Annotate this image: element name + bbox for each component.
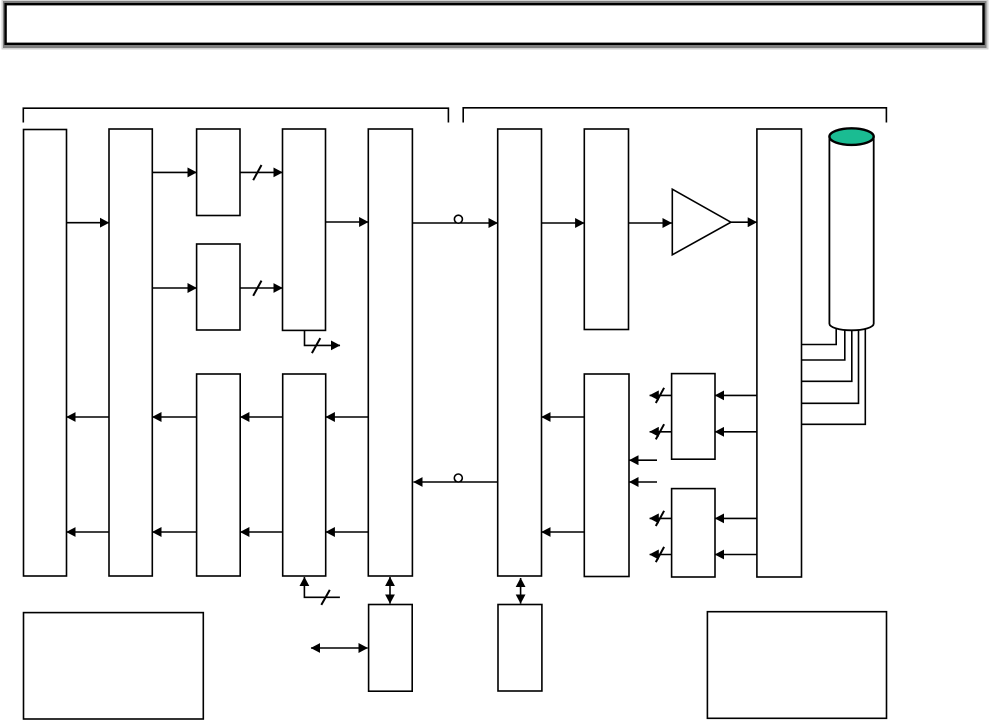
col4 lower bottom bus slash arrow <box>304 577 340 605</box>
wire cylinder line4 <box>802 330 859 403</box>
wire cylinder line3 <box>802 330 852 381</box>
wire cylinder line5 <box>802 329 866 425</box>
arrow amplifier to col8 <box>731 221 757 223</box>
arrow row1 col7 to col6 <box>542 416 585 418</box>
short arrow into col7 lower upper <box>629 459 657 461</box>
double arrow col5 to lower small box <box>389 577 391 604</box>
arrow row1 col5 to col4 <box>326 416 369 418</box>
block small below column6 <box>498 605 542 692</box>
left group bracket <box>23 108 448 122</box>
arrow row1 col4 to col3 <box>240 416 283 418</box>
block column3 small middle <box>197 244 240 330</box>
block small S1 <box>672 374 715 460</box>
block column4 upper <box>283 129 326 330</box>
S2 output bus slash arrow upper <box>650 511 672 526</box>
arrow small top to col4 with bus slash <box>240 165 283 180</box>
block column5 tall <box>368 129 412 576</box>
arrow col8 to S1 upper <box>715 394 757 396</box>
arrow row2 col2 to col1 <box>67 531 110 533</box>
cylinder (disk) body <box>829 137 873 331</box>
arrow small middle to col4 with bus slash <box>240 281 283 296</box>
node circle on return wire <box>454 474 462 482</box>
node circle on wire <box>454 215 462 223</box>
arrow col2 to small top <box>152 171 196 173</box>
arrow row2 col4 to col3 <box>240 531 283 533</box>
block column3 lower <box>197 374 241 576</box>
wire cylinder line2 <box>802 330 845 360</box>
block column8 tall <box>757 129 802 577</box>
col4 bottom bus slash arrow <box>305 331 341 353</box>
arrow row1 col3 to col2 <box>152 416 196 418</box>
cylinder (disk) top ellipse <box>829 128 873 145</box>
block column2 tall <box>109 129 152 576</box>
double arrow col6 to lower small box <box>520 578 522 604</box>
title bar frame <box>2 0 989 50</box>
block column6 tall <box>498 129 542 576</box>
block column1 tall <box>24 130 67 577</box>
block column4 lower <box>283 374 326 576</box>
wire cylinder line1 <box>802 328 837 344</box>
block small below column5 <box>369 605 413 692</box>
arrow col4 to col5 <box>326 221 369 223</box>
block bottom-left large <box>24 613 204 719</box>
block column3 small top <box>197 129 240 216</box>
arrow col8 to S2 lower <box>715 554 757 556</box>
S2 output bus slash arrow lower <box>650 547 672 562</box>
arrow col7 to amplifier <box>629 222 672 224</box>
block small S2 <box>672 489 715 577</box>
arrow row2 col3 to col2 <box>152 531 196 533</box>
S1 output bus slash arrow upper <box>650 388 672 403</box>
arrow col8 to S1 lower <box>715 431 757 433</box>
wire col5 to col6 <box>412 222 497 224</box>
block bottom-right large <box>707 612 886 719</box>
double horizontal arrow into lower small box <box>311 647 368 649</box>
right group bracket <box>463 108 886 123</box>
arrow col2 to small middle <box>152 287 196 289</box>
block column7 upper <box>584 129 628 330</box>
arrow col1 to col2 <box>67 222 110 224</box>
arrow row2 col7 to col6 <box>542 531 585 533</box>
arrow col6 to col7 <box>542 222 585 224</box>
return wire col6 to col5 <box>414 481 499 483</box>
short arrow into col7 lower lower <box>629 481 657 483</box>
block column7 lower <box>584 374 629 577</box>
arrow row2 col5 to col4 <box>326 531 369 533</box>
arrow col8 to S2 upper <box>715 517 757 519</box>
S1 output bus slash arrow lower <box>650 424 672 439</box>
amplifier triangle <box>672 189 731 255</box>
arrow row1 col2 to col1 <box>67 416 110 418</box>
